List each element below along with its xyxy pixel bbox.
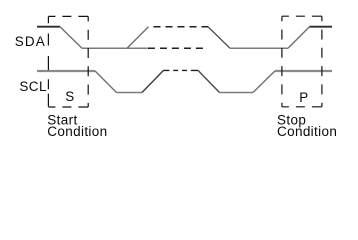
wire SDA high level right segment [310, 26, 333, 28]
wire SCL low level first [117, 92, 143, 94]
wire SCL high level right segment [275, 70, 332, 72]
wire SCL high level mid with dashed clock break [164, 69, 199, 71]
svg-text:S: S [65, 89, 74, 104]
start condition dashed box right edge [87, 16, 89, 107]
wire SDA rising edge at stop condition [288, 27, 310, 49]
start condition dashed box bottom edge [48, 106, 88, 108]
wire SDA rising edge mid [127, 27, 149, 49]
svg-text:Condition: Condition [277, 124, 337, 139]
svg-text:SCL: SCL [19, 79, 47, 94]
wire SDA dashed high data segment [154, 26, 209, 28]
stop condition dashed box right edge [321, 16, 323, 107]
svg-text:P: P [299, 90, 308, 105]
wire SCL rising edge at stop condition [253, 71, 275, 93]
svg-text:Condition: Condition [47, 124, 107, 139]
wire SDA low level solid segment [82, 47, 148, 49]
svg-text:SDA: SDA [15, 34, 46, 49]
stop condition dashed box bottom edge [282, 106, 322, 108]
wire SCL low level second [220, 92, 254, 94]
wire SCL high level left segment [37, 70, 95, 72]
wire SDA low level right segment [230, 47, 288, 49]
start condition dashed box left edge [47, 16, 49, 107]
wire SDA falling edge at start condition [60, 27, 82, 49]
wire SDA dashed low data segment [148, 47, 207, 49]
start condition dashed box top edge [48, 15, 88, 17]
wire SCL falling edge mid [198, 70, 220, 92]
stop condition dashed box top edge [282, 15, 322, 17]
stop condition dashed box left edge [281, 16, 283, 107]
wire SDA high level left segment [37, 26, 60, 28]
wire SDA falling edge mid [208, 27, 230, 49]
wire SCL rising edge mid [142, 70, 164, 92]
wire SCL falling edge first [95, 71, 117, 93]
